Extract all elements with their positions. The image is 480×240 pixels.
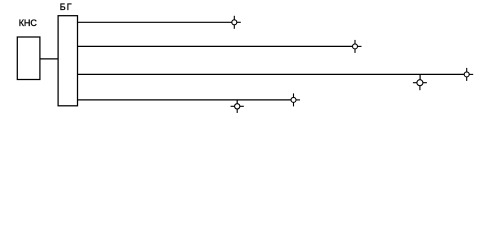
- sprinkler head 4a (end of branch 4): [291, 93, 300, 106]
- block БГ (distribution header): [58, 16, 77, 106]
- sprinkler head 2 (end of branch 2): [353, 40, 362, 53]
- sprinkler head 1 (end of branch 1): [232, 16, 241, 29]
- svg-text:БГ: БГ: [60, 2, 73, 12]
- sprinkler head 3a (end of branch 3): [464, 68, 473, 81]
- drop wire to sprinkler 4b: [236, 100, 238, 106]
- drop wire to sprinkler 3b: [419, 74, 421, 82]
- block КНС (pump station): [17, 37, 40, 80]
- wire branch 2: [78, 45, 356, 47]
- sprinkler head 4b (drop on branch 4): [231, 104, 244, 113]
- wire branch 3: [78, 73, 467, 75]
- wire КНС to БГ: [40, 58, 58, 60]
- wire branch 4: [78, 99, 294, 101]
- sprinkler head 3b (drop on branch 3): [413, 80, 427, 91]
- wire branch 1: [78, 21, 235, 23]
- svg-text:КНС: КНС: [19, 18, 38, 28]
